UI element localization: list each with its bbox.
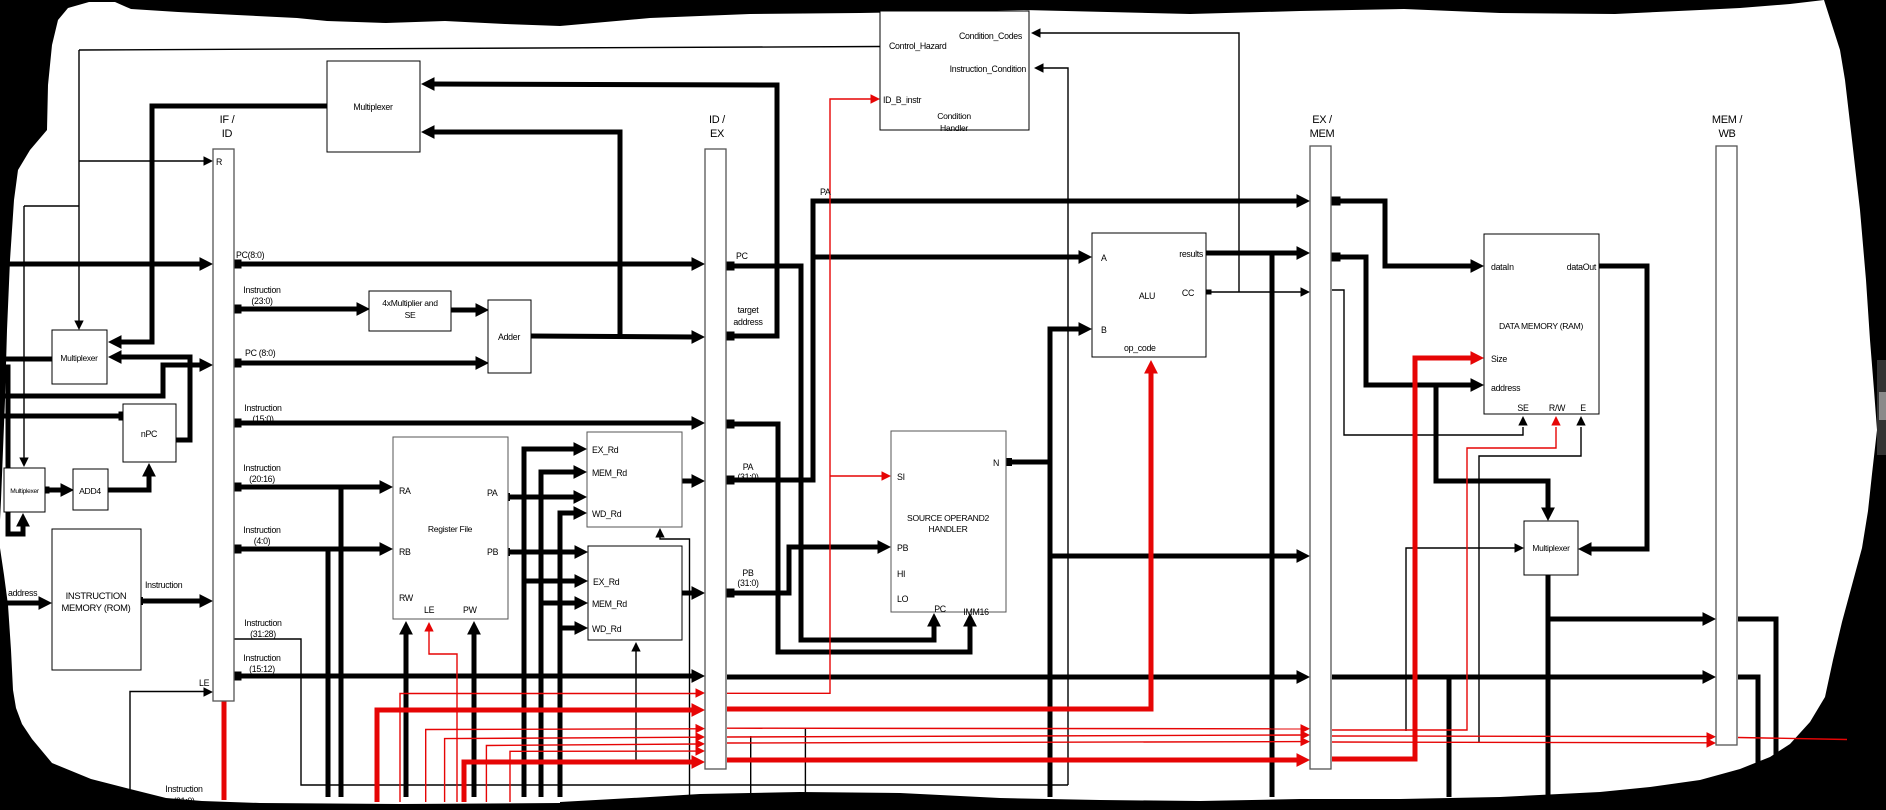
svg-text:EX /: EX / — [1312, 114, 1333, 126]
svg-text:WD_Rd: WD_Rd — [592, 509, 622, 519]
svg-text:(15:0): (15:0) — [252, 414, 274, 424]
svg-text:CC: CC — [1182, 288, 1195, 298]
svg-text:Condition_Codes: Condition_Codes — [959, 31, 1023, 41]
svg-text:PB: PB — [742, 568, 754, 578]
svg-text:results: results — [1179, 249, 1204, 259]
svg-text:Multiplexer: Multiplexer — [1532, 543, 1570, 553]
svg-text:PC(8:0): PC(8:0) — [236, 250, 265, 260]
svg-text:Handler: Handler — [940, 123, 968, 133]
svg-text:(15:12): (15:12) — [249, 664, 275, 674]
svg-text:PC: PC — [736, 251, 749, 261]
svg-text:dataIn: dataIn — [1491, 262, 1514, 272]
svg-text:IMM16: IMM16 — [963, 607, 989, 617]
svg-text:Instruction: Instruction — [243, 525, 281, 535]
svg-text:(23:0): (23:0) — [251, 296, 273, 306]
svg-text:ID: ID — [222, 128, 233, 140]
svg-text:SE: SE — [1517, 403, 1529, 413]
svg-text:Size: Size — [1491, 354, 1507, 364]
svg-text:(31:0): (31:0) — [737, 578, 759, 588]
svg-text:PC: PC — [934, 604, 947, 614]
svg-text:PA: PA — [487, 488, 498, 498]
svg-text:MEM_Rd: MEM_Rd — [592, 599, 627, 609]
svg-text:MEM /: MEM / — [1712, 114, 1744, 126]
svg-text:op_code: op_code — [1124, 343, 1156, 353]
svg-text:Register File: Register File — [428, 524, 473, 534]
svg-text:ALU: ALU — [1139, 291, 1155, 301]
svg-text:PC (8:0): PC (8:0) — [245, 348, 276, 358]
svg-text:Instruction_Condition: Instruction_Condition — [950, 64, 1027, 74]
svg-text:INSTRUCTION: INSTRUCTION — [66, 590, 127, 601]
svg-text:SOURCE OPERAND2: SOURCE OPERAND2 — [907, 513, 989, 523]
svg-text:HANDLER: HANDLER — [929, 524, 968, 534]
svg-text:R: R — [216, 157, 222, 167]
svg-text:Instruction: Instruction — [243, 653, 281, 663]
svg-text:LO: LO — [897, 594, 909, 604]
svg-text:EX_Rd: EX_Rd — [592, 445, 619, 455]
svg-text:SI: SI — [897, 472, 905, 482]
svg-text:MEM: MEM — [1310, 128, 1335, 140]
svg-text:(20:16): (20:16) — [249, 474, 275, 484]
svg-text:MEMORY (ROM): MEMORY (ROM) — [62, 602, 131, 613]
svg-text:RB: RB — [399, 547, 411, 557]
svg-text:Control_Hazard: Control_Hazard — [889, 41, 947, 51]
svg-text:Multiplexer: Multiplexer — [353, 102, 393, 112]
svg-text:ADD4: ADD4 — [79, 486, 101, 496]
svg-text:address: address — [1491, 383, 1521, 393]
svg-text:(31:0): (31:0) — [173, 796, 195, 806]
svg-text:A: A — [1101, 253, 1107, 263]
svg-text:E: E — [1580, 403, 1586, 413]
svg-text:Multiplexer: Multiplexer — [60, 353, 98, 363]
svg-text:RA: RA — [399, 486, 411, 496]
svg-text:address: address — [8, 588, 38, 598]
svg-text:Instruction: Instruction — [243, 285, 281, 295]
svg-text:HI: HI — [897, 569, 905, 579]
svg-text:nPC: nPC — [141, 429, 158, 439]
svg-text:target: target — [738, 305, 760, 315]
svg-text:Instruction: Instruction — [243, 463, 281, 473]
svg-text:PA: PA — [820, 187, 831, 197]
svg-text:Instruction: Instruction — [244, 618, 282, 628]
svg-text:WB: WB — [1718, 128, 1735, 140]
svg-text:4xMultiplier and: 4xMultiplier and — [382, 298, 438, 308]
svg-text:IF /: IF / — [220, 114, 236, 126]
svg-text:address: address — [733, 317, 763, 327]
svg-text:RW: RW — [399, 593, 414, 603]
svg-text:Condition: Condition — [937, 111, 971, 121]
svg-text:Instruction: Instruction — [165, 784, 203, 794]
svg-text:PW: PW — [463, 605, 478, 615]
svg-text:MEM_Rd: MEM_Rd — [592, 468, 627, 478]
svg-text:(31:0): (31:0) — [737, 472, 759, 482]
svg-text:Adder: Adder — [498, 332, 520, 342]
svg-text:(4:0): (4:0) — [254, 536, 271, 546]
svg-text:DATA MEMORY (RAM): DATA MEMORY (RAM) — [1499, 321, 1583, 331]
svg-text:PA: PA — [743, 462, 754, 472]
svg-text:ID_B_instr: ID_B_instr — [883, 95, 921, 105]
svg-text:(31:28): (31:28) — [250, 629, 276, 639]
svg-text:EX: EX — [710, 128, 725, 140]
svg-text:EX_Rd: EX_Rd — [593, 577, 620, 587]
svg-text:Instruction: Instruction — [145, 580, 183, 590]
svg-text:B: B — [1101, 325, 1107, 335]
svg-text:R/W: R/W — [1549, 403, 1566, 413]
svg-text:dataOut: dataOut — [1567, 262, 1597, 272]
svg-text:LE: LE — [199, 678, 210, 688]
svg-text:Instruction: Instruction — [244, 403, 282, 413]
svg-text:PB: PB — [487, 547, 499, 557]
svg-text:WD_Rd: WD_Rd — [592, 624, 622, 634]
svg-text:LE: LE — [424, 605, 435, 615]
svg-text:ID /: ID / — [709, 114, 726, 126]
svg-text:SE: SE — [405, 310, 416, 320]
svg-text:Multiplexer: Multiplexer — [10, 488, 40, 495]
svg-text:PB: PB — [897, 543, 909, 553]
svg-text:N: N — [993, 458, 999, 468]
